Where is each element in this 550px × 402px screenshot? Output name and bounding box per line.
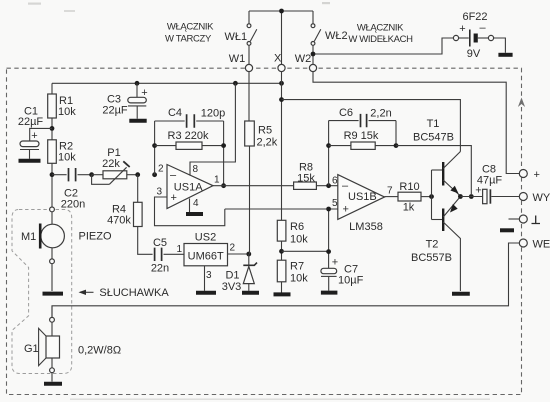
svg-text:22µF: 22µF xyxy=(18,116,44,128)
svg-text:+: + xyxy=(534,169,540,181)
svg-text:R6: R6 xyxy=(290,221,304,233)
svg-text:WŁ2: WŁ2 xyxy=(325,30,348,42)
resistor R8 xyxy=(294,162,338,190)
capacitor C7 xyxy=(321,257,364,293)
svg-text:22k: 22k xyxy=(102,158,120,170)
svg-text:2: 2 xyxy=(158,164,164,175)
node X terminal xyxy=(274,53,285,72)
svg-text:US1A: US1A xyxy=(174,182,203,194)
svg-text:1: 1 xyxy=(177,244,183,255)
svg-text:10k: 10k xyxy=(290,273,308,285)
svg-text:WE: WE xyxy=(533,239,550,251)
svg-text:BC547B: BC547B xyxy=(413,132,454,144)
resistor R6 xyxy=(277,220,308,260)
svg-text:22n: 22n xyxy=(151,263,169,275)
resistor R10 xyxy=(385,181,432,214)
resistor R4 xyxy=(107,172,153,254)
svg-text:1k: 1k xyxy=(403,202,415,214)
arrow on right dashed border xyxy=(518,98,525,108)
wire: bias node to pin5 column xyxy=(282,209,332,268)
wire: rail X to T1 collector xyxy=(282,100,461,152)
capacitor C5 xyxy=(151,237,184,275)
terminal WY xyxy=(519,192,550,204)
svg-text:C5: C5 xyxy=(153,237,167,249)
svg-text:2: 2 xyxy=(230,243,236,254)
svg-text:R10: R10 xyxy=(399,181,419,193)
svg-text:R3 220k: R3 220k xyxy=(168,130,209,142)
capacitor C1 xyxy=(18,106,55,161)
svg-text:+: + xyxy=(171,192,177,204)
transistor T1 BC547B xyxy=(413,118,460,196)
svg-text:R7: R7 xyxy=(290,261,304,273)
svg-text:US2: US2 xyxy=(195,232,216,244)
svg-text:2,2k: 2,2k xyxy=(257,137,278,149)
switch WL1 xyxy=(225,24,257,65)
transistor T2 BC557B xyxy=(411,197,470,294)
svg-text:9V: 9V xyxy=(467,48,481,60)
switch WL2 xyxy=(311,24,348,65)
svg-text:X: X xyxy=(274,53,282,65)
svg-text:D1: D1 xyxy=(225,270,239,282)
trimmer P1 xyxy=(89,147,138,184)
svg-text:4: 4 xyxy=(193,198,199,209)
capacitor C3 xyxy=(102,83,147,120)
svg-text:LM358: LM358 xyxy=(349,221,383,233)
svg-text:–: – xyxy=(479,22,486,34)
svg-text:15k: 15k xyxy=(297,173,315,185)
svg-text:W1: W1 xyxy=(229,53,246,65)
svg-text:SŁUCHAWKA: SŁUCHAWKA xyxy=(99,287,169,299)
capacitor C8 xyxy=(475,164,519,204)
battery 6F22 9V xyxy=(453,11,512,60)
svg-text:WŁ1: WŁ1 xyxy=(225,31,248,43)
wire: US2 pin 2 node xyxy=(228,252,252,257)
svg-text:3V3: 3V3 xyxy=(222,281,242,293)
wire: US1B pin5 xyxy=(225,207,338,212)
zener D1 3V3 xyxy=(222,254,259,293)
wire: WL2 to battery xyxy=(311,38,454,56)
wire: base junction of T1/T2 xyxy=(429,170,442,220)
svg-text:C6: C6 xyxy=(339,107,353,119)
svg-text:3: 3 xyxy=(206,270,212,281)
svg-text:10k: 10k xyxy=(290,234,308,246)
svg-text:WŁĄCZNIK: WŁĄCZNIK xyxy=(357,23,404,34)
svg-text:T1: T1 xyxy=(427,118,440,130)
svg-text:2,2n: 2,2n xyxy=(370,108,391,120)
resistor R1 xyxy=(48,83,77,140)
label: sluchawka with arrow xyxy=(79,287,170,299)
svg-text:M1: M1 xyxy=(21,231,36,243)
svg-text:–: – xyxy=(170,170,177,182)
label: wlacznik w widelkach xyxy=(348,23,413,46)
svg-text:470k: 470k xyxy=(107,215,131,227)
svg-text:47µF: 47µF xyxy=(477,175,503,187)
svg-text:1: 1 xyxy=(214,175,220,186)
svg-text:WY: WY xyxy=(533,192,550,204)
resistor R3 xyxy=(155,130,224,149)
wire: US1A pin 3 to bias xyxy=(155,197,225,226)
wire: output node to C8 xyxy=(458,194,483,199)
terminal + output xyxy=(519,169,540,181)
speaker G1 xyxy=(24,306,121,384)
svg-text:3: 3 xyxy=(157,187,163,198)
svg-text:10k: 10k xyxy=(58,106,76,118)
wire: feedback network left vertical xyxy=(152,121,157,177)
capacitor C2 xyxy=(50,168,92,211)
svg-text:120p: 120p xyxy=(201,108,225,120)
svg-text:+: + xyxy=(343,204,349,216)
svg-text:22µF: 22µF xyxy=(102,105,128,117)
svg-text:8: 8 xyxy=(193,164,199,175)
terminal earth xyxy=(500,215,540,230)
svg-text:10µF: 10µF xyxy=(338,275,364,287)
resistor R9 xyxy=(329,130,396,149)
terminal W2 xyxy=(295,53,317,72)
telephone body dashed border xyxy=(7,68,522,394)
op-amp US1A xyxy=(157,164,221,210)
resistor R7 xyxy=(274,260,309,294)
svg-text:US1B: US1B xyxy=(348,191,377,203)
capacitor C6 xyxy=(329,107,396,127)
wire: X line vertical xyxy=(279,72,284,221)
svg-text:10k: 10k xyxy=(58,152,76,164)
wire: +V rail A (left, y=83) xyxy=(52,81,284,86)
svg-text:WŁĄCZNIK: WŁĄCZNIK xyxy=(167,22,214,33)
svg-text:W WIDEŁKACH: W WIDEŁKACH xyxy=(348,34,413,45)
wire: feedback network right vertical xyxy=(221,121,226,188)
microphone M1 xyxy=(21,207,112,294)
svg-text:–: – xyxy=(342,180,349,192)
svg-text:R9 15k: R9 15k xyxy=(344,130,379,142)
wire: top link WL1/WL2 to X xyxy=(249,9,313,65)
label: wlacznik w tarczy xyxy=(165,22,214,45)
svg-text:5: 5 xyxy=(332,198,338,209)
svg-text:W TARCZY: W TARCZY xyxy=(165,34,212,45)
wire: US1A output xyxy=(213,185,294,187)
svg-text:+: + xyxy=(31,130,37,142)
svg-text:+: + xyxy=(459,23,465,35)
wire: rail W2 to + terminal xyxy=(313,72,519,174)
svg-text:0,2W/8Ω: 0,2W/8Ω xyxy=(78,345,121,357)
ground US2 pin 3 xyxy=(196,266,216,293)
svg-text:6: 6 xyxy=(332,176,338,187)
svg-text:BC557B: BC557B xyxy=(411,252,452,264)
resistor R5 xyxy=(245,72,278,254)
svg-text:T2: T2 xyxy=(426,239,439,251)
capacitor C4 xyxy=(155,107,226,128)
svg-text:W2: W2 xyxy=(295,53,312,65)
svg-text:+: + xyxy=(332,257,338,269)
ground US1A pin 4 xyxy=(186,199,203,215)
wire: feedback right vertical and run to output node xyxy=(394,121,472,194)
handset dashed outline xyxy=(12,210,72,374)
svg-text:PIEZO: PIEZO xyxy=(79,231,112,243)
svg-text:7: 7 xyxy=(387,186,393,197)
svg-text:220n: 220n xyxy=(61,199,85,211)
svg-text:R5: R5 xyxy=(258,125,272,137)
terminal W1 xyxy=(229,53,253,72)
svg-text:G1: G1 xyxy=(24,343,39,355)
op-amp US1B xyxy=(332,175,393,233)
svg-text:C4: C4 xyxy=(168,107,182,119)
svg-text:UM66T: UM66T xyxy=(188,251,224,263)
wire: feedback left vertical (US1B) xyxy=(326,121,331,186)
resistor R2 xyxy=(48,140,77,207)
wire: US1A pin 8 supply xyxy=(190,83,235,175)
terminal WE xyxy=(52,239,550,318)
IC US2 UM66T xyxy=(177,232,236,282)
